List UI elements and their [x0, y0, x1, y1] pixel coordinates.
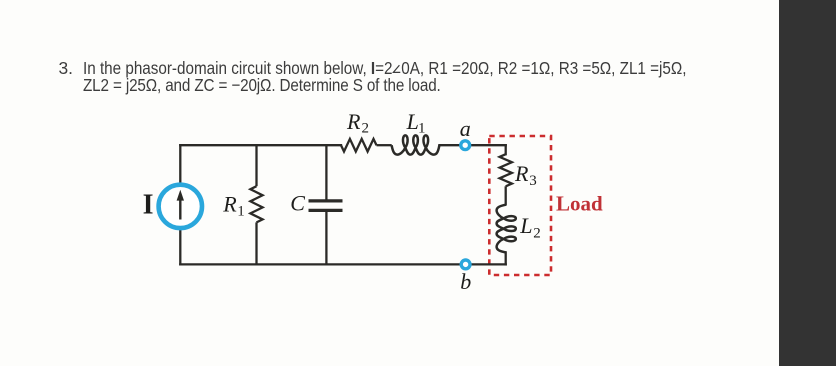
inductor L2	[497, 205, 516, 253]
resistor R2	[341, 139, 377, 152]
resistor R3	[500, 154, 512, 186]
wire: load branch top stub	[505, 145, 507, 154]
wire: L2 to bottom corner	[505, 252, 507, 264]
capacitor C top plate	[309, 199, 343, 202]
svg-text:2: 2	[533, 225, 541, 241]
svg-text:2: 2	[362, 121, 370, 137]
svg-text:L: L	[519, 213, 532, 238]
node a	[461, 141, 470, 150]
wire: R2 to L1	[377, 144, 392, 146]
wire: left branch through current source	[179, 145, 181, 264]
svg-text:1: 1	[237, 203, 245, 219]
svg-text:L: L	[406, 109, 419, 134]
dark sidebar strip at right edge	[779, 0, 836, 366]
node b	[461, 260, 470, 269]
wire: capacitor bottom stub	[325, 211, 327, 264]
wire: R1 branch top stub	[255, 145, 257, 186]
svg-text:Load: Load	[556, 192, 603, 216]
wire: R1 branch bottom stub	[255, 222, 257, 264]
svg-text:C: C	[290, 191, 305, 216]
wire: bottom return from load to source	[180, 263, 505, 265]
svg-text:R: R	[346, 109, 361, 134]
problem statement text	[56, 60, 756, 94]
load boundary dashed box	[489, 136, 551, 275]
svg-text:I: I	[143, 190, 154, 221]
svg-text:R: R	[514, 161, 529, 186]
wire: R3 to L2	[505, 186, 507, 205]
current source arrow	[177, 190, 184, 220]
svg-text:3: 3	[529, 173, 537, 189]
wire: L1 through node a to load corner	[439, 144, 505, 146]
inductor L1	[392, 135, 440, 154]
svg-text:b: b	[460, 269, 471, 294]
svg-text:1: 1	[418, 121, 426, 137]
wire: top from source to R2	[180, 144, 341, 146]
capacitor C bottom plate	[309, 209, 343, 212]
svg-text:R: R	[222, 191, 237, 216]
svg-text:a: a	[460, 116, 471, 141]
resistor R1	[250, 186, 262, 222]
current source I (circle)	[159, 185, 202, 228]
wire: capacitor top stub	[325, 145, 327, 200]
